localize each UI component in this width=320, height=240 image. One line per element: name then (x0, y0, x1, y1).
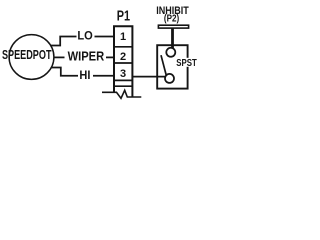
svg-text:SPST: SPST (176, 58, 197, 69)
svg-text:P1: P1 (117, 8, 130, 25)
svg-text:HI: HI (79, 70, 90, 82)
svg-text:SPEEDPOT: SPEEDPOT (2, 47, 52, 62)
svg-text:LO: LO (77, 31, 92, 43)
svg-text:(P2): (P2) (164, 14, 179, 25)
svg-text:2: 2 (120, 51, 126, 63)
svg-text:1: 1 (120, 31, 126, 43)
svg-text:WIPER: WIPER (68, 48, 105, 63)
svg-text:3: 3 (120, 68, 126, 80)
